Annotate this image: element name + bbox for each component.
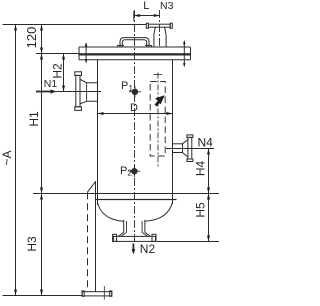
wire: extension line at bottom tangent y=193 bbox=[33, 193, 219, 195]
anchor bolt centerline bbox=[103, 286, 105, 300]
wire: extension line at flange joint y=53.5 bbox=[36, 53, 79, 55]
nozzle N4 bbox=[166, 148, 214, 150]
bottom head bbox=[98, 203, 124, 222]
top cover plate bbox=[79, 46, 191, 48]
svg-text:D: D bbox=[130, 102, 138, 114]
dimension H2 bbox=[63, 54, 65, 92]
svg-text:L: L bbox=[143, 0, 149, 12]
svg-text:~A: ~A bbox=[0, 150, 14, 165]
nozzle N1 bbox=[36, 91, 101, 93]
flange bolt right bbox=[183, 42, 185, 67]
svg-text:H3: H3 bbox=[25, 236, 39, 252]
head weld seam bbox=[96, 199, 177, 201]
dimension H3 bbox=[41, 194, 43, 296]
wire: extension line N2 flange face y=241.8 bbox=[157, 241, 219, 243]
flange bolt left bbox=[85, 44, 87, 63]
vessel centerline bbox=[134, 10, 136, 243]
nozzle N3 bbox=[148, 24, 170, 27]
lifting handle on cover bbox=[120, 38, 149, 47]
support leg bbox=[95, 181, 97, 291]
svg-text:H1: H1 bbox=[27, 111, 41, 127]
dimension 120 bbox=[41, 25, 43, 54]
N1 flow arrow bbox=[36, 91, 52, 93]
nozzle N3 centerline bbox=[159, 10, 161, 47]
top extension line (top of N3 flange level) bbox=[3, 24, 147, 26]
base plate bbox=[82, 292, 112, 296]
dimension ~A bbox=[15, 25, 17, 296]
vessel shell walls bbox=[97, 60, 99, 205]
svg-text:H2: H2 bbox=[51, 63, 65, 79]
svg-text:H4: H4 bbox=[194, 161, 208, 177]
dimension H5 bbox=[208, 194, 210, 242]
dimension L bbox=[134, 15, 160, 17]
dimension D bbox=[98, 113, 173, 115]
flow arrow symbol inside box bbox=[155, 95, 165, 106]
internal component centerline bbox=[157, 73, 159, 168]
svg-text:120: 120 bbox=[24, 27, 39, 49]
N2 flow arrow bbox=[132, 244, 134, 251]
svg-text:P2: P2 bbox=[120, 165, 132, 178]
svg-text:H5: H5 bbox=[194, 202, 208, 218]
dimension H1 bbox=[41, 54, 43, 194]
dimension H4 bbox=[208, 149, 210, 194]
svg-text:N4: N4 bbox=[198, 136, 214, 150]
svg-text:P1: P1 bbox=[121, 80, 133, 93]
internal demister (dashed box) bbox=[150, 82, 165, 157]
P1 datum target bbox=[132, 89, 137, 94]
nozzle N2 bbox=[123, 220, 125, 233]
svg-text:N3: N3 bbox=[160, 0, 174, 12]
P2 datum target bbox=[132, 169, 137, 174]
wire: ground line y=295 bbox=[3, 295, 83, 297]
svg-text:N1: N1 bbox=[44, 78, 58, 90]
svg-text:N2: N2 bbox=[140, 242, 156, 256]
